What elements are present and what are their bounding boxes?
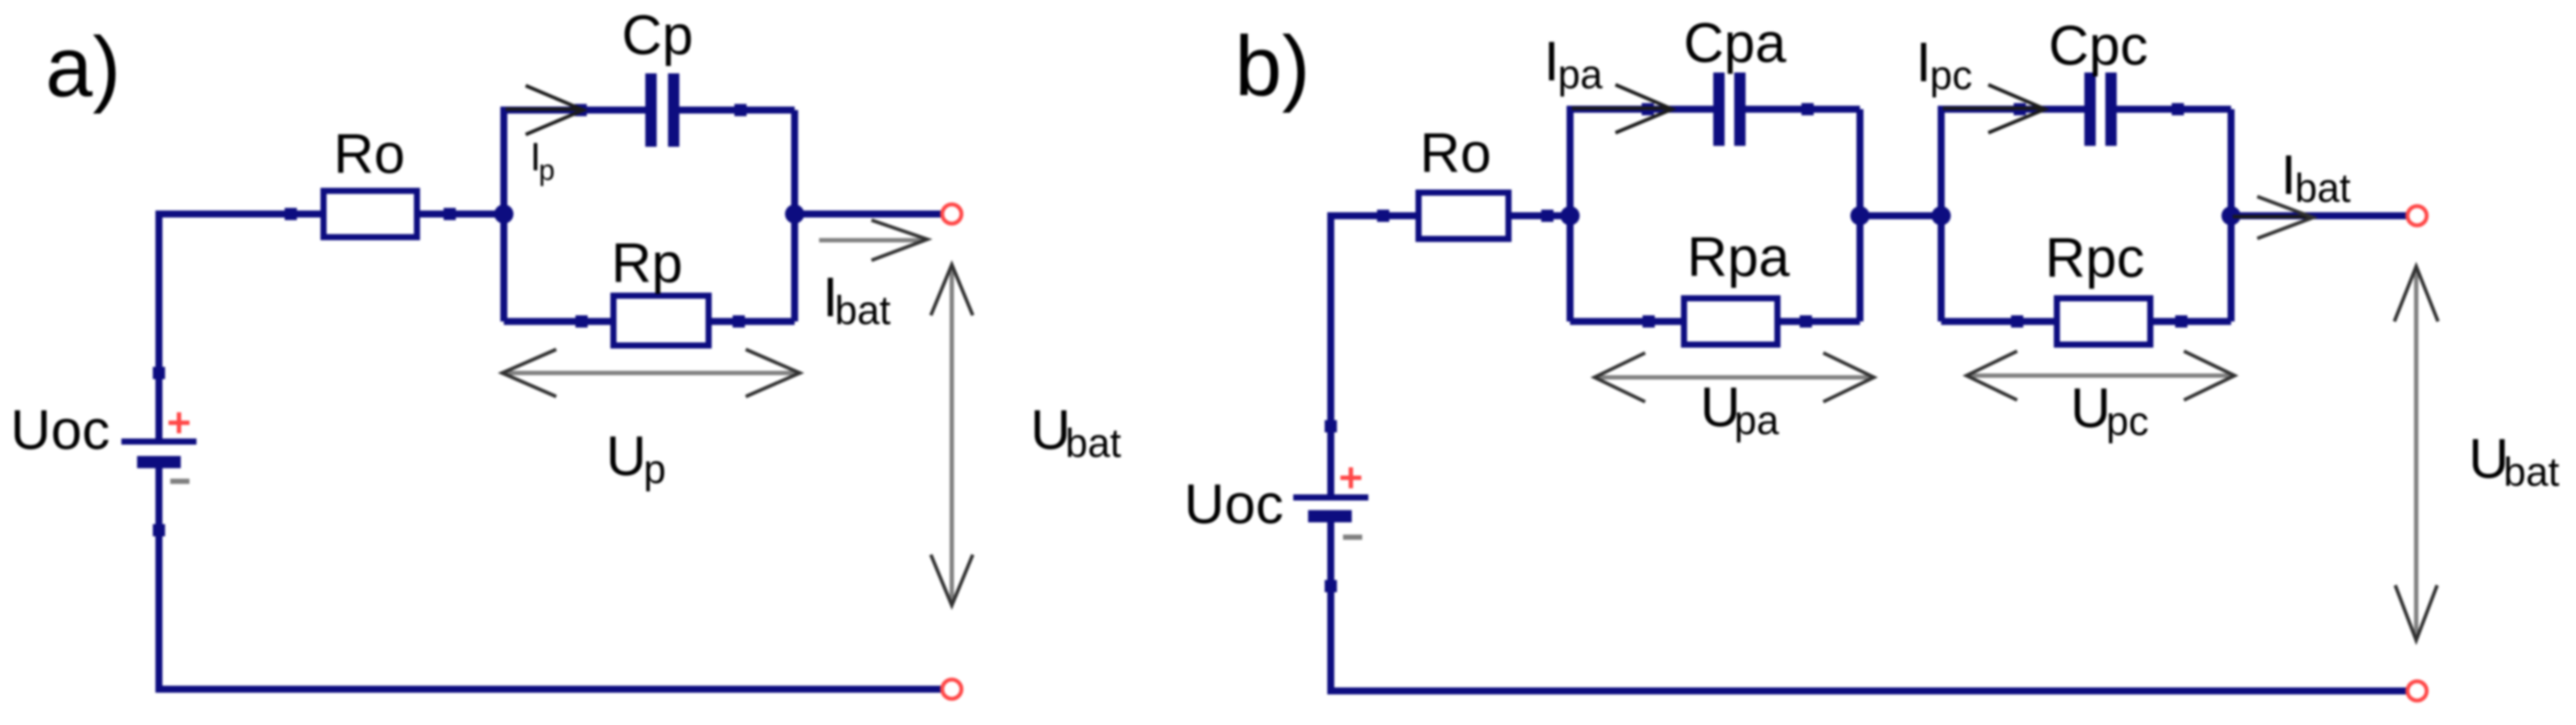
voltage arrow Ubat (a) — [931, 265, 973, 605]
minus sign (b) — [1343, 535, 1362, 540]
wire: battery down to bottom rail (b) — [1331, 522, 2411, 691]
plus sign (a) — [169, 412, 189, 433]
current arrow Ibat (b) — [2233, 197, 2313, 238]
junction square on loop1 bottom wire left of Rpa — [1643, 315, 1655, 328]
svg-text:a): a) — [45, 19, 121, 114]
voltage source Uoc (a) battery — [121, 438, 196, 468]
wire: between loop1 and loop2 — [1860, 212, 1941, 219]
svg-text:U: U — [606, 425, 646, 487]
node left of loop1 — [1560, 206, 1580, 225]
junction square on loop1 top wire left of Cpa — [1642, 103, 1654, 115]
wire: RC loop right vertical — [791, 110, 798, 321]
wire: loop bottom left segment to Rp — [504, 318, 613, 325]
resistor Rpc — [2057, 299, 2151, 345]
junction square right of Ro (b) — [1541, 210, 1553, 222]
svg-text:Uoc: Uoc — [10, 398, 110, 461]
label Ip — [530, 135, 554, 186]
current arrow Ibat (a) — [819, 220, 927, 260]
wire: loop2 bottom right segment from Rpc — [2151, 318, 2231, 325]
svg-text:p: p — [644, 446, 666, 492]
svg-text:Rpc: Rpc — [2045, 226, 2145, 289]
svg-text:Rp: Rp — [611, 231, 683, 294]
junction square on loop2 bottom wire right of Rpc — [2175, 315, 2187, 328]
svg-text:U: U — [2070, 376, 2111, 439]
junction square on bottom wire right of Rp — [733, 315, 745, 328]
current arrow Ipc — [1943, 85, 2045, 133]
wire: loop top right segment from Cp — [676, 107, 795, 114]
junction square on bottom wire left of Rp — [575, 315, 588, 328]
junction square on loop1 bottom wire right of Rpa — [1800, 315, 1812, 328]
wire: Ro to left node — [420, 211, 504, 217]
capacitor Cp plates — [645, 73, 679, 147]
wire: loop top left segment to Cp — [504, 110, 649, 214]
svg-text:Ro: Ro — [1420, 121, 1491, 184]
svg-text:pc: pc — [1930, 52, 1973, 98]
wire: RC loop left vertical — [500, 110, 507, 321]
svg-text:Cpa: Cpa — [1684, 11, 1787, 74]
current arrow Ipa — [1572, 85, 1672, 133]
capacitor Cpc plates — [2084, 72, 2117, 146]
label Up — [606, 425, 666, 492]
wire: loop1 bottom right segment from Rpa — [1778, 318, 1860, 325]
wire: battery down to bottom rail (a) — [159, 468, 946, 689]
resistor Ro — [324, 191, 417, 238]
wire: loop bottom right segment from Rp — [709, 318, 795, 325]
svg-text:Rpa: Rpa — [1687, 225, 1790, 288]
voltage arrow Upc — [1966, 351, 2235, 400]
svg-text:Ro: Ro — [334, 122, 405, 185]
junction square below battery (a) — [153, 524, 165, 536]
terminal negative (b) — [2407, 681, 2427, 701]
junction square on loop1 top wire right of Cpa — [1801, 103, 1814, 115]
node right of RC loop — [785, 204, 804, 224]
label Upc — [2070, 376, 2149, 444]
node right of loop1 — [1850, 206, 1870, 225]
junction square on loop2 top wire left of Cpc — [2014, 103, 2026, 115]
wire: Ro to first node (b) — [1512, 212, 1570, 219]
terminal positive (a) — [942, 204, 961, 224]
wire: loop2 right vertical — [2228, 109, 2235, 321]
wire: loop2 left vertical — [1941, 109, 2088, 216]
terminal positive (b) — [2407, 206, 2427, 225]
label Ubat (b) — [2469, 427, 2559, 494]
junction square on wire right of Ro — [444, 208, 456, 220]
junction square below battery (b) — [1325, 580, 1337, 592]
label Ibat (a) — [823, 266, 891, 333]
voltage arrow Upa — [1595, 353, 1874, 402]
terminal negative (a) — [942, 680, 961, 699]
current arrow Ip — [506, 86, 583, 135]
junction square on top wire left of Cp — [575, 104, 587, 116]
node left of RC loop — [494, 204, 513, 224]
junction square on top wire right of Cp — [734, 104, 747, 116]
wire: loop2 top right segment from Cpc — [2115, 106, 2231, 113]
wire: main horizontal left segment to Ro — [159, 214, 320, 438]
wire: loop1 bottom left segment to Rpa — [1570, 318, 1684, 325]
svg-text:bat: bat — [1065, 420, 1121, 466]
node left of loop2 — [1932, 206, 1951, 225]
svg-text:pc: pc — [2106, 398, 2149, 444]
wire: loop1 left vertical lower — [1567, 216, 1574, 321]
svg-text:b): b) — [1235, 18, 1310, 114]
junction square above battery (b) — [1325, 420, 1337, 432]
junction square above battery (a) — [153, 367, 165, 379]
capacitor Cpa plates — [1713, 72, 1746, 146]
label Ipa — [1544, 30, 1603, 97]
resistor Ro (b) — [1419, 193, 1509, 239]
resistor Rp — [614, 296, 709, 346]
voltage arrow Ubat (b) — [2394, 266, 2438, 640]
wire: output to positive terminal — [795, 211, 946, 217]
wire: loop1 right vertical — [1856, 109, 1863, 321]
junction square left of Ro (b) — [1377, 210, 1389, 222]
wire: loop2 left vertical lower — [1938, 216, 1945, 321]
wire: output to positive terminal (b) — [2231, 212, 2411, 219]
wire: main horizontal left segment to Ro (b) — [1331, 216, 1415, 494]
svg-text:pa: pa — [1558, 52, 1603, 97]
label Ubat (a) — [1030, 398, 1121, 466]
wire: loop2 bottom left segment to Rpc — [1941, 318, 2056, 325]
svg-text:bat: bat — [835, 287, 891, 333]
junction square on loop2 bottom wire left of Rpc — [2011, 315, 2023, 328]
wire: loop1 top right segment from Cpa — [1744, 106, 1860, 113]
resistor Rpa — [1684, 299, 1778, 345]
svg-text:Cpc: Cpc — [2049, 14, 2148, 77]
wire: loop1 left vertical — [1570, 109, 1717, 216]
svg-text:Uoc: Uoc — [1184, 473, 1284, 535]
junction square on loop2 top wire right of Cpc — [2172, 103, 2184, 115]
label Upa — [1700, 376, 1780, 443]
node right of loop2 — [2221, 206, 2241, 225]
svg-text:pa: pa — [1734, 397, 1780, 443]
label Ipc — [1916, 31, 1973, 98]
voltage arrow Up — [502, 349, 800, 397]
voltage source Uoc (b) battery — [1293, 494, 1368, 522]
svg-text:bat: bat — [2504, 449, 2559, 494]
svg-text:bat: bat — [2295, 165, 2351, 211]
label Ibat (b) — [2281, 143, 2351, 211]
junction square on wire left of Ro — [285, 208, 297, 220]
svg-text:p: p — [539, 154, 554, 186]
plus sign (b) — [1340, 467, 1361, 488]
svg-text:Cp: Cp — [622, 3, 693, 66]
minus sign (a) — [170, 479, 189, 484]
